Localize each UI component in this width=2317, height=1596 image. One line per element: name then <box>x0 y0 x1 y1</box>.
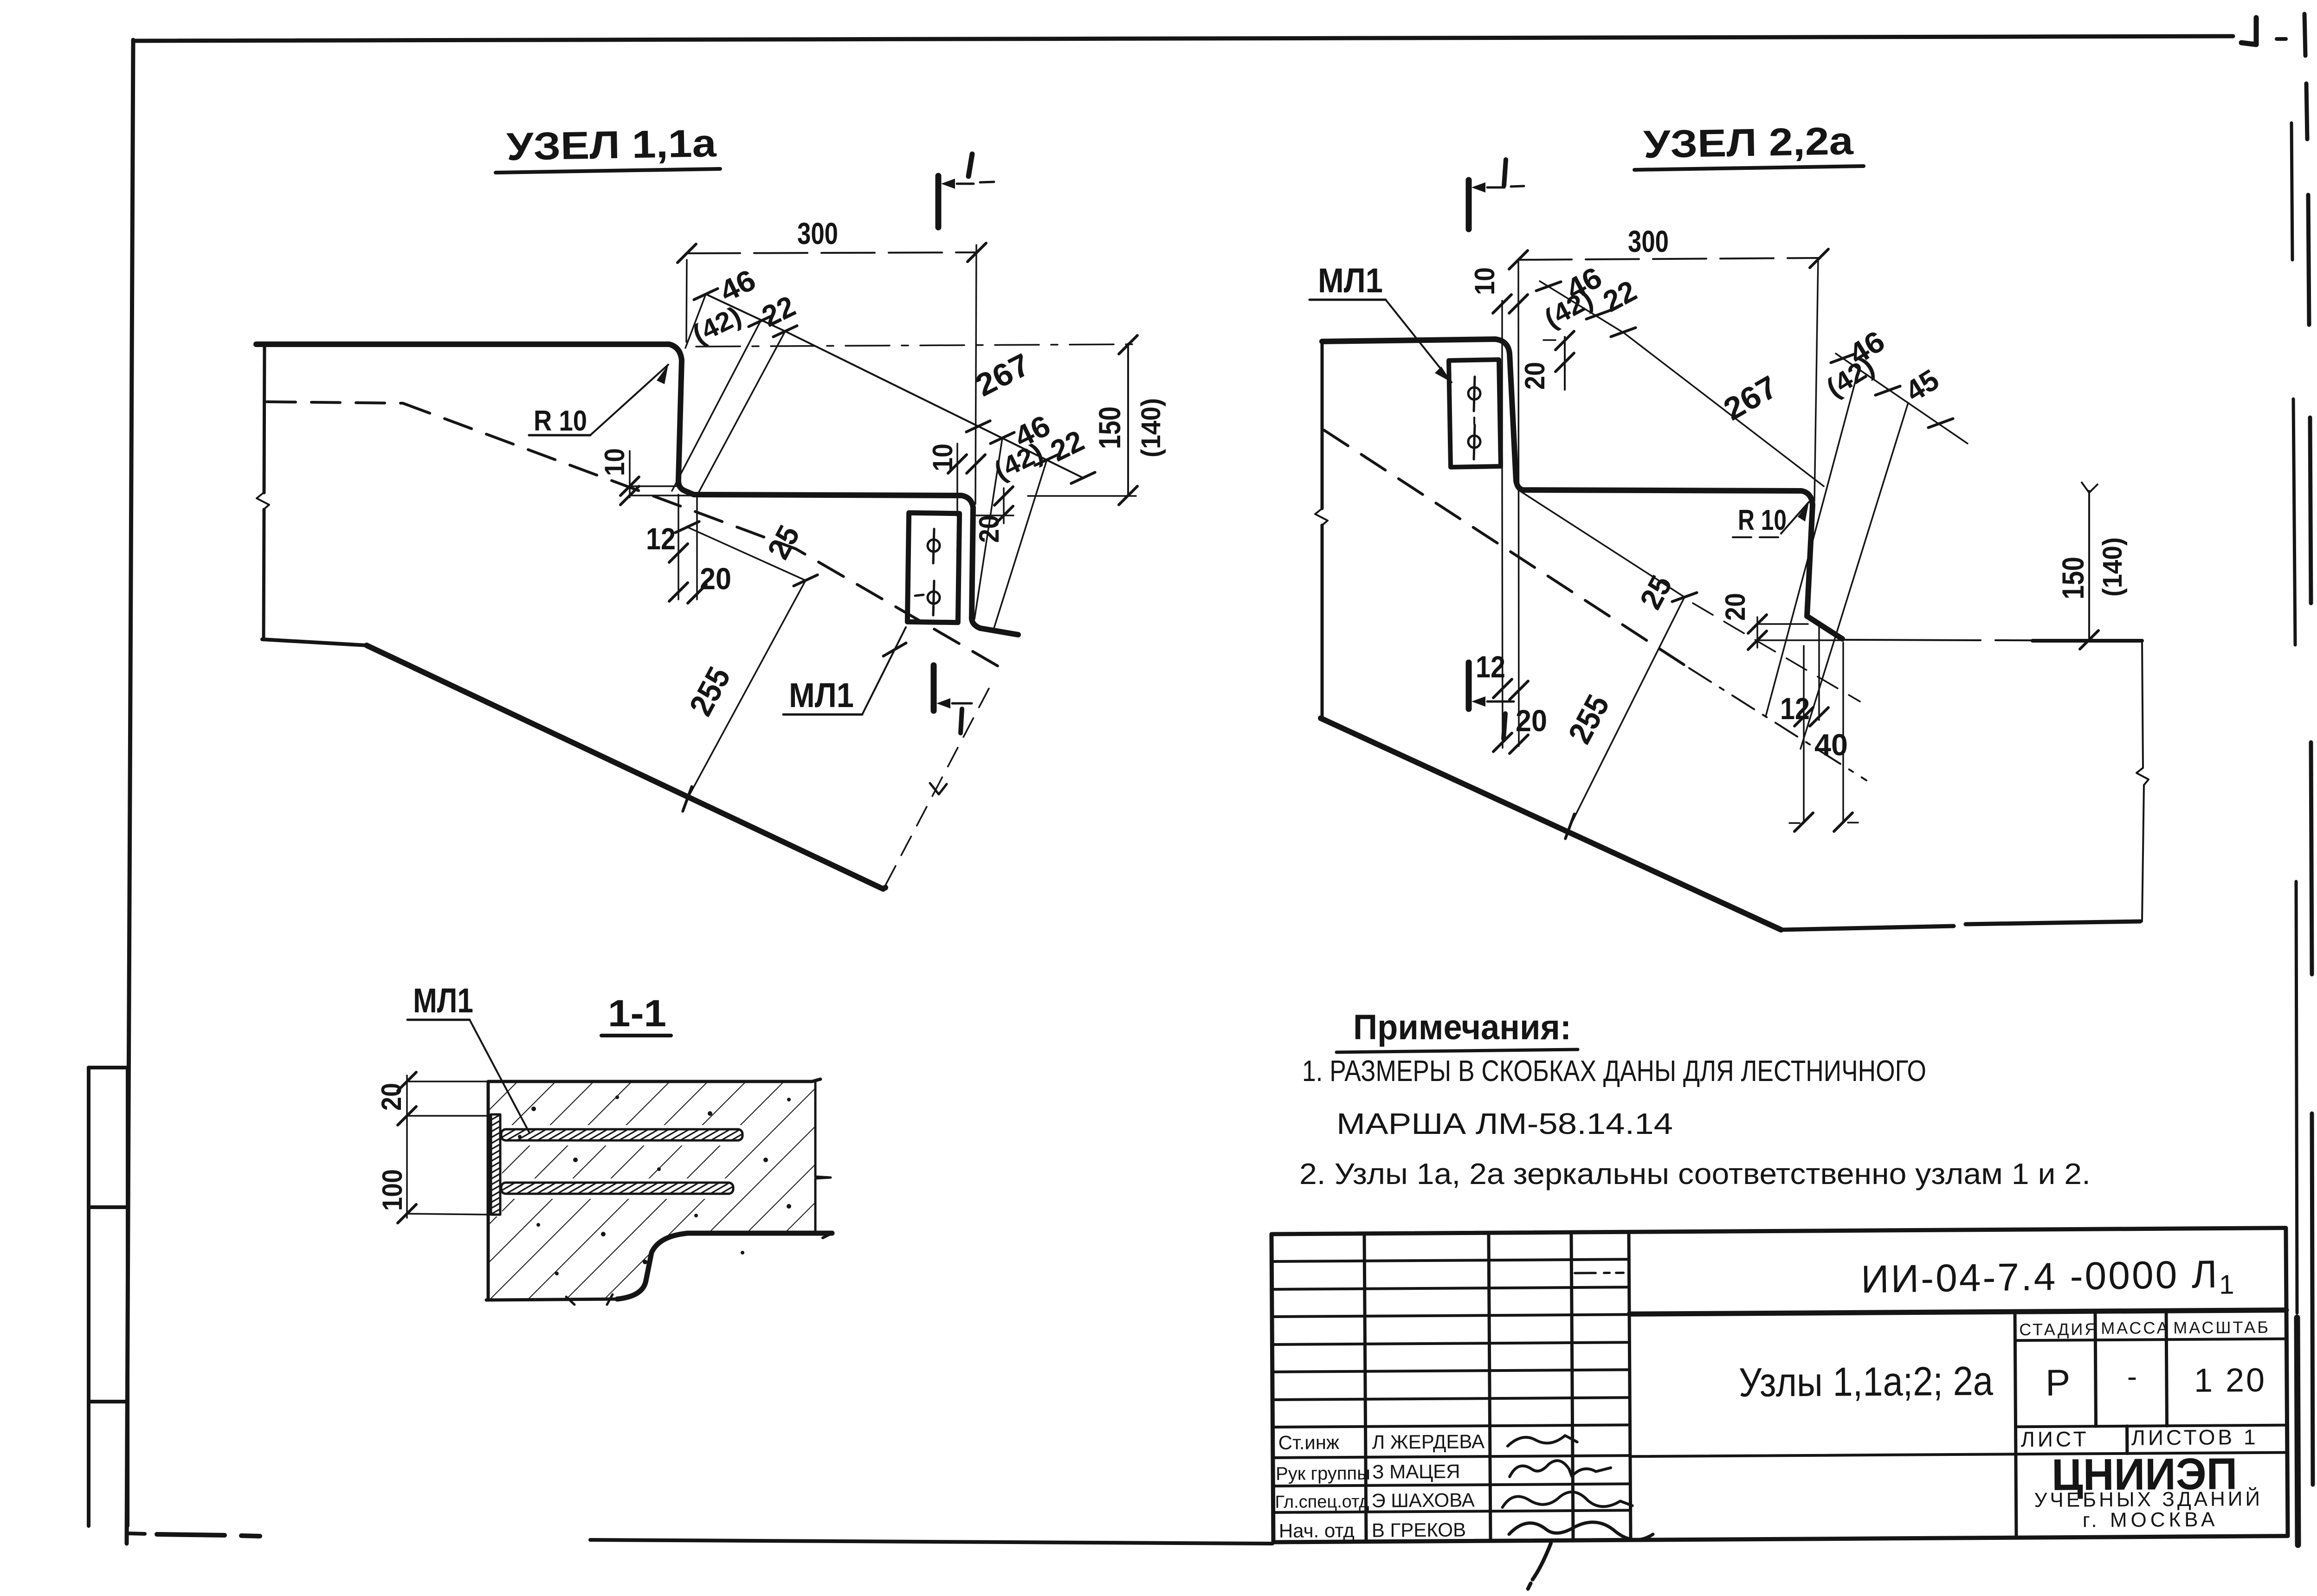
dim 10 vertical a node2 <box>1501 301 1503 490</box>
svg-text:20: 20 <box>700 561 731 596</box>
lower cluster extension line a <box>975 438 1002 619</box>
dim 20 upper vertical node2 <box>1564 337 1566 390</box>
section cut digit 1 top <box>968 154 972 176</box>
dim 255 line node2 <box>1570 597 1685 826</box>
svg-text:12: 12 <box>1780 691 1810 726</box>
margin strip rung top <box>89 1066 128 1069</box>
svg-text:ЛИСТОВ 1: ЛИСТОВ 1 <box>2131 1425 2259 1450</box>
right scan edge inner bold bottom <box>2297 1318 2298 1545</box>
flight soffit thick diagonal <box>367 645 885 889</box>
signature tail <box>1528 1543 1551 1589</box>
node 1 title underline <box>496 169 720 173</box>
bottom border left corner <box>127 1526 145 1534</box>
notes heading underline <box>1336 1049 1578 1052</box>
lower cluster extension a node2 <box>1766 366 1859 716</box>
ML1 underline node1 <box>783 714 862 716</box>
svg-text:2. Узлы 1а, 2а зеркальны соотв: 2. Узлы 1а, 2а зеркальны соответственно … <box>1299 1157 2091 1191</box>
plate centre dash node2 <box>1473 418 1475 424</box>
margin strip rung low <box>89 1400 128 1403</box>
SECTION 1-1 <box>376 981 832 1305</box>
right edge break zigzag node2 <box>2136 768 2149 785</box>
svg-text:УЧЕБНЫХ ЗДАНИЙ: УЧЕБНЫХ ЗДАНИЙ <box>2034 1487 2263 1512</box>
R10 underline dashed node2 <box>1733 536 1781 538</box>
tick 267 end <box>1071 466 1095 489</box>
svg-text:12: 12 <box>646 521 676 556</box>
ML1 leader node1 <box>862 627 906 714</box>
svg-text:г. МОСКВА: г. МОСКВА <box>2083 1508 2219 1532</box>
anchor plate ML1 node2 <box>1449 360 1501 467</box>
ML1 underline node2 <box>1310 299 1386 301</box>
left edge break zigzag <box>257 493 269 509</box>
svg-text:300: 300 <box>797 216 838 251</box>
dim 300 line <box>687 252 977 253</box>
node 2 title underline <box>1634 166 1864 170</box>
cluster ticks node2 <box>1536 274 1561 298</box>
dim 25 dashed continuation <box>1693 603 1860 701</box>
step notch curve <box>617 1233 688 1299</box>
dim 20 lower ticks <box>1748 615 1767 633</box>
svg-text:Узлы 1,1а;2; 2а: Узлы 1,1а;2; 2а <box>1739 1358 1994 1405</box>
svg-text:СТАДИЯ: СТАДИЯ <box>2019 1319 2098 1339</box>
svg-text:20: 20 <box>376 1083 407 1111</box>
svg-text:20: 20 <box>1519 362 1550 390</box>
dim 150 vertical node2 <box>2088 491 2090 640</box>
ticks 12/20 <box>669 544 688 562</box>
svg-text:МАРША ЛМ-58.14.14: МАРША ЛМ-58.14.14 <box>1336 1107 1673 1140</box>
landing underside short horizontal <box>262 639 367 645</box>
lower cluster extension line b <box>993 460 1047 631</box>
ticks upper cluster <box>694 282 717 306</box>
section cut digit 1 bottom <box>961 709 962 733</box>
signature row1 <box>1508 1435 1577 1446</box>
svg-text:10: 10 <box>1469 267 1500 295</box>
svg-text:R 10: R 10 <box>1738 504 1787 536</box>
landing slab profile thick outline <box>256 344 1018 635</box>
stamp label row lines <box>1273 1425 1631 1512</box>
svg-text:МЛ1: МЛ1 <box>1318 261 1383 300</box>
svg-text:Нач. отд: Нач. отд <box>1279 1519 1355 1542</box>
top right J artifact <box>2241 18 2256 45</box>
slab soffit thick diagonal node2 <box>1321 718 1781 930</box>
top border horizontal <box>133 36 2233 41</box>
left margin column strip <box>89 1068 128 1526</box>
svg-text:УЗЕЛ 2,2а: УЗЕЛ 2,2а <box>1643 119 1854 166</box>
dim 150 hook top node2 <box>2082 483 2098 493</box>
tick 267 crossing <box>966 414 990 438</box>
svg-text:Л ЖЕРДЕВА: Л ЖЕРДЕВА <box>1372 1430 1485 1453</box>
col4 dash-dot row mark <box>1575 1272 1623 1274</box>
svg-text:(140): (140) <box>2098 537 2128 597</box>
vertical plate leg hatched <box>491 1114 500 1215</box>
svg-text:З МАЦЕЯ: З МАЦЕЯ <box>1372 1461 1460 1483</box>
upper 46/(42)/22 dim slanted line <box>706 294 785 331</box>
section cut mark bottom: arm <box>952 702 972 705</box>
section digit 1 <box>1504 160 1506 186</box>
signature row3 <box>1502 1492 1632 1507</box>
section cut mark bottom arm node2 <box>1487 701 1514 703</box>
plate anchor upper node2 <box>1468 387 1480 399</box>
right scan edge broken line outer <box>2304 14 2313 1485</box>
svg-text:МАССА: МАССА <box>2101 1318 2170 1338</box>
dim 300 ticks node2 <box>1509 251 1528 269</box>
section cut mark arrowhead <box>1472 182 1485 193</box>
dim ext top <box>407 1081 488 1082</box>
NODE 2 DRAWING <box>1310 119 2149 930</box>
bottom hatch ticks <box>566 1294 613 1305</box>
dim 300 left extension <box>686 260 687 342</box>
svg-text:ЛИСТ: ЛИСТ <box>2021 1427 2089 1451</box>
slab profile thick outline node2 <box>1322 339 1842 639</box>
bottom border dashes left <box>157 1534 260 1536</box>
svg-text:12: 12 <box>1476 650 1505 684</box>
dim 267 slanted line <box>785 331 1083 478</box>
svg-text:Э ШАХОВА: Э ШАХОВА <box>1371 1489 1475 1511</box>
section cut mark top: bar <box>936 176 942 227</box>
svg-text:1-1: 1-1 <box>608 992 666 1035</box>
heavy divider under doc number <box>1629 1310 2286 1314</box>
signature row4 flourish <box>1509 1522 1653 1540</box>
bottom border long line <box>590 1540 1272 1544</box>
ticks 12/20 mid node2 <box>1493 679 1512 698</box>
svg-text:(140): (140) <box>1136 398 1166 457</box>
dim 300 right extension <box>1814 258 1818 501</box>
dim 10 left ticks <box>620 477 639 496</box>
lower landing top line node2 <box>1781 921 2140 930</box>
dim 300 right extension <box>975 245 976 504</box>
dim 150 ticks <box>1119 335 1137 354</box>
landing slab left cut edge <box>264 344 265 639</box>
lower cluster extension b node2 <box>1801 403 1908 749</box>
section arrowhead bottom node2 <box>1472 696 1485 707</box>
tread level extension right <box>1028 495 1136 497</box>
dim 25 slanted line <box>687 527 806 580</box>
svg-text:150: 150 <box>1092 406 1127 449</box>
extension riser-parallel line a <box>672 321 761 491</box>
dim 300 left extension long <box>1518 260 1519 746</box>
concrete speckles <box>518 1095 807 1285</box>
svg-text:R 10: R 10 <box>534 405 587 437</box>
svg-text:1. РАЗМЕРЫ В СКОБКАХ ДАНЫ ДЛЯ: 1. РАЗМЕРЫ В СКОБКАХ ДАНЫ ДЛЯ ЛЕСТНИЧНОГ… <box>1302 1054 1926 1088</box>
concrete block hatched area <box>488 1081 815 1300</box>
dim 20 lower ext bottom <box>1756 639 1842 641</box>
lower rebar strip <box>501 1183 733 1194</box>
bottom dashes node2 <box>1789 823 1858 823</box>
block right edge <box>815 1081 831 1233</box>
plate anchor symbol upper <box>928 540 940 552</box>
anchor plate ML1 node1 <box>907 513 959 622</box>
dim 20 lower-left of riser: ext top <box>1756 623 1808 625</box>
upper 46/(42) cluster line node2 <box>1540 281 1824 486</box>
right edge bottom tick <box>2287 1475 2288 1499</box>
svg-text:МЛ1: МЛ1 <box>789 676 854 714</box>
lower tread thin line node2 <box>1844 640 2142 641</box>
svg-text:20: 20 <box>1516 703 1547 738</box>
hidden dashed diagonal node2 <box>1324 430 1689 668</box>
stamp narrow row lines <box>1271 1259 1630 1400</box>
section cut mark top: arm with arrow <box>957 182 994 184</box>
dim 150 ref line thick node2 <box>2033 639 2142 643</box>
svg-text:Ст.инж: Ст.инж <box>1278 1431 1340 1454</box>
svg-text:МАСШТАБ: МАСШТАБ <box>2173 1318 2270 1337</box>
hidden underside dashed line <box>267 402 403 403</box>
section digit 1 bottom node2 <box>1504 714 1505 739</box>
right sub-table verticals <box>2015 1311 2168 1538</box>
section trace arrow chevron <box>930 783 947 794</box>
dim 255 bottom tick <box>675 786 699 811</box>
svg-text:20: 20 <box>1720 593 1751 621</box>
right scan edge inner line <box>2291 123 2297 1313</box>
bottom 12/40 verticals node2 <box>1804 624 1843 822</box>
NOTES <box>1299 1008 2091 1191</box>
svg-text:10: 10 <box>599 448 630 476</box>
dim 300 tick left <box>678 244 696 263</box>
dim 25 ticks <box>675 515 699 539</box>
svg-text:Примечания:: Примечания: <box>1353 1008 1571 1047</box>
stamp vertical col lines <box>1364 1232 1631 1541</box>
block top-right tick <box>812 1079 820 1081</box>
section cut mark top: arrowhead <box>941 179 955 189</box>
NODE 1 DRAWING <box>256 121 1166 889</box>
lower-right ticks node2 <box>1831 346 1855 370</box>
right sub-table horizontals <box>1629 1339 2287 1457</box>
ML1 leader node2 <box>1386 300 1452 382</box>
white slot around rebars <box>501 1125 747 1146</box>
svg-text:Гл.спец.отд: Гл.спец.отд <box>1275 1492 1369 1512</box>
slab left cut edge node2 <box>1321 343 1324 718</box>
section cut mark bottom: bar <box>931 665 937 711</box>
svg-text:150: 150 <box>2056 557 2090 599</box>
dim 10 ticks node2 <box>1493 295 1511 313</box>
dim 300 line node2 <box>1518 258 1819 260</box>
R10 leader node2 <box>1781 502 1809 534</box>
top level chain line to right <box>696 344 1135 347</box>
hidden flight dashed diagonal <box>403 403 1001 668</box>
svg-text:20: 20 <box>974 515 1005 543</box>
TITLE BLOCK <box>1271 1228 2288 1590</box>
top right small dash <box>2277 37 2286 41</box>
dim ticks <box>398 1072 416 1091</box>
extension riser-parallel line b <box>697 331 785 496</box>
svg-text:УЗЕЛ 1,1а: УЗЕЛ 1,1а <box>506 121 717 168</box>
dim 10 left vertical <box>629 451 631 497</box>
right cut edge node2 <box>2142 641 2144 921</box>
dim 25 ticks node2 <box>1672 585 1697 609</box>
svg-text:В ГРЕКОВ: В ГРЕКОВ <box>1372 1519 1466 1541</box>
upper rebar strip <box>501 1129 742 1140</box>
dim 255 bottom tick node2 <box>1557 814 1582 838</box>
R10 leader arrow to fillet <box>590 365 668 435</box>
dim 20 upper ticks <box>1555 331 1574 350</box>
dim 12 vertical a <box>678 495 679 599</box>
dim 12/20 mid verticals node2 <box>1502 490 1503 748</box>
dim 10 right ticks <box>948 455 967 473</box>
bottom 12/40 ticks node2 <box>1794 708 1813 726</box>
block bottom-right edge with arrow end <box>688 1231 832 1236</box>
dim ext mid <box>407 1115 491 1117</box>
ML1 underline section <box>407 1019 470 1021</box>
section title underline <box>601 1034 671 1037</box>
dim 20 plate ticks <box>994 487 1013 505</box>
dim 10 left ext bottom <box>630 495 696 496</box>
section cut mark top arm <box>1487 186 1524 187</box>
extension to nose corner <box>685 294 706 348</box>
svg-text:-: - <box>2127 1360 2137 1393</box>
dim 300 tick right <box>968 243 986 262</box>
section cut mark top bar <box>1466 180 1472 229</box>
left border vertical <box>127 40 133 1544</box>
small dash left of lower anchor <box>915 595 923 596</box>
dim 10 left ext top <box>630 485 681 487</box>
section cut mark bottom bar node2 <box>1466 663 1472 709</box>
concrete block outline <box>488 1081 812 1300</box>
dim 20 vertical b <box>696 496 698 599</box>
dim 255 line <box>687 580 806 799</box>
signature row2 <box>1510 1461 1611 1477</box>
left edge break zigzag node2 <box>1315 508 1328 525</box>
svg-text:МЛ1: МЛ1 <box>413 981 473 1020</box>
dim vertical line left <box>406 1075 408 1218</box>
svg-text:100: 100 <box>377 1169 408 1211</box>
dim 20 plate vertical <box>1003 488 1005 523</box>
lower 46/(42)/22 ticks <box>990 426 1014 450</box>
svg-text:Рук группы: Рук группы <box>1276 1463 1370 1484</box>
dim 20 lower vertical <box>1756 617 1758 648</box>
stamp outer rectangle <box>1271 1228 2288 1542</box>
dim 20 plate horizontal extension <box>976 515 1013 516</box>
dim 20 upper dash ext <box>1543 339 1555 341</box>
dim 150 vertical right <box>1127 344 1129 496</box>
plate anchor symbol lower <box>928 592 940 604</box>
dim 25 slanted line node2 <box>1518 490 1685 597</box>
margin strip rung mid <box>89 1205 128 1209</box>
R10 underline <box>529 434 590 437</box>
svg-text:1 20: 1 20 <box>2194 1362 2267 1399</box>
svg-text:300: 300 <box>1628 224 1669 258</box>
svg-text:Р: Р <box>2046 1362 2071 1403</box>
section view dash-dot trace <box>884 689 989 887</box>
dim 10 right vertical <box>956 444 958 516</box>
plate anchor lower node2 <box>1468 436 1480 448</box>
dim ext bottom <box>407 1214 491 1215</box>
block bottom-left edge <box>486 1299 617 1300</box>
dim 150 tick bottom node2 <box>2080 631 2098 649</box>
hidden dash-dot continuation node2 <box>1689 668 1866 780</box>
lower-right 46/(42)/45 dim line node2 <box>1836 354 1968 444</box>
ML1 leader section <box>470 1020 529 1132</box>
section cut mark bottom: arrowhead <box>936 698 950 708</box>
svg-text:40: 40 <box>1814 727 1848 762</box>
